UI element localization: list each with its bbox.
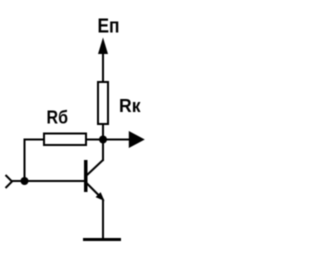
resistor Rб	[44, 134, 86, 146]
wire input to base	[12, 180, 84, 182]
node collector junction	[99, 136, 107, 144]
wire Rб left lead and feedback loop	[25, 140, 45, 182]
wire collector vertical	[102, 141, 104, 161]
power arrow to Eп	[98, 38, 108, 55]
svg-text:Rб: Rб	[47, 108, 69, 128]
node base junction	[21, 177, 29, 185]
input terminal chevron	[6, 175, 13, 188]
transistor VT1 base bar	[84, 160, 88, 192]
transistor emitter lead with arrow	[87, 183, 102, 198]
wire Rб right lead	[86, 139, 100, 141]
svg-text:Eп: Eп	[98, 16, 120, 38]
ground	[83, 238, 121, 241]
resistor Rк	[98, 82, 108, 124]
wire arrow shaft to Rк	[102, 52, 104, 82]
wire Rк bottom lead	[102, 124, 104, 141]
transistor collector lead	[87, 160, 104, 176]
wire emitter to ground	[102, 199, 104, 239]
svg-text:Rк: Rк	[119, 96, 141, 116]
output arrow	[103, 139, 130, 141]
